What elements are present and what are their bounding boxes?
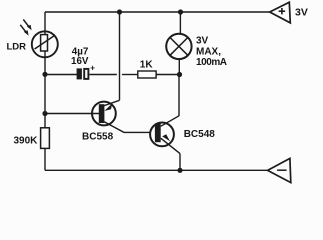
- wire BC548 emitter vertical: [179, 154, 181, 171]
- svg-text:MAX,: MAX,: [196, 46, 221, 57]
- junction top rail / BC558 emitter line: [117, 9, 122, 14]
- wire bottom 0V rail: [45, 169, 268, 171]
- junction BC548 emitter / bottom rail: [177, 168, 182, 173]
- svg-text:LDR: LDR: [7, 42, 27, 53]
- svg-text:1K: 1K: [140, 59, 154, 70]
- resistor R2 1K: [138, 71, 156, 78]
- junction node A / BC558 base: [42, 111, 47, 116]
- junction node A / capacitor wire: [42, 72, 47, 77]
- label lamp rating 3V MAX, 100mA: [196, 36, 227, 68]
- wire LDR top lead: [44, 12, 46, 35]
- svg-text:100mA: 100mA: [196, 57, 227, 68]
- junction 1K / lamp-collector line: [177, 72, 182, 77]
- LDR R1: [32, 31, 58, 57]
- wire BC558 emitter vertical to +3V: [119, 12, 121, 100]
- svg-text:3V: 3V: [196, 36, 209, 47]
- svg-text:3V: 3V: [295, 7, 308, 19]
- svg-text:BC548: BC548: [184, 129, 216, 140]
- wire lamp top lead: [179, 12, 181, 34]
- battery negative terminal: [268, 158, 291, 182]
- wire lamp bottom lead: [178, 59, 180, 75]
- label 4u7 16V: [71, 47, 89, 68]
- wire LDR bottom lead / node A vertical: [44, 51, 46, 128]
- light arrow 2 into LDR: [20, 25, 28, 36]
- wire capacitor to crossing: [89, 74, 116, 76]
- wire 1K to collector line: [156, 74, 179, 76]
- transistor Q1 BC558 PNP: [92, 100, 150, 132]
- svg-text:+: +: [90, 63, 95, 72]
- wire top +3V rail: [45, 11, 270, 13]
- capacitor C1 4u7: [77, 63, 96, 79]
- light arrow 1 into LDR: [23, 20, 31, 31]
- wire 390K to bottom rail: [44, 148, 46, 170]
- junction top rail / lamp: [178, 9, 183, 14]
- svg-text:BC558: BC558: [82, 131, 114, 142]
- wire crossing to 1K resistor: [122, 74, 138, 76]
- transistor Q2 BC548 NPN: [150, 116, 180, 154]
- wire node A to capacitor: [45, 74, 77, 76]
- resistor R3 390K: [41, 128, 50, 149]
- battery positive terminal: [270, 2, 291, 23]
- wire BC558 base from node A: [45, 113, 100, 115]
- lamp LP1: [166, 34, 191, 59]
- wire BC548 collector vertical: [178, 75, 180, 117]
- svg-text:16V: 16V: [71, 56, 89, 67]
- svg-text:390K: 390K: [14, 136, 39, 147]
